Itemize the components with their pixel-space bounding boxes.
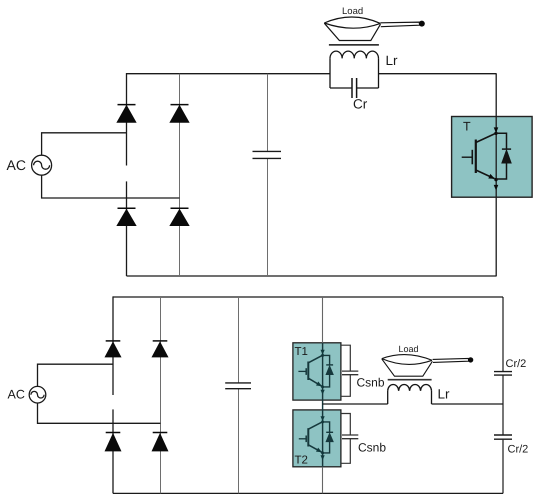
filter capacitor C2 plates (circuit 2) — [225, 383, 251, 389]
svg-text:Lr: Lr — [386, 53, 399, 68]
diode D6 (circuit 2 bridge, lower left) — [105, 433, 120, 451]
AC source V1 (circuit 1) — [32, 155, 52, 175]
anti-parallel diode of T1 — [323, 355, 334, 387]
anti-parallel diode of T2 — [323, 422, 334, 453]
node T2 collector junction — [321, 420, 324, 423]
wire half-bridge leg through T1 T2 (circuit 2) — [322, 297, 324, 493]
wire right leg middle segment (circuit 2) — [502, 376, 504, 435]
wire half-bridge midpoint to coil (circuit 2) — [323, 403, 388, 405]
svg-text:Load: Load — [342, 6, 363, 17]
node T collector junction — [494, 132, 497, 135]
inductor Lr coil (circuit 2) — [388, 384, 432, 404]
wire dark segment through T1 and T2 modules — [322, 343, 324, 467]
snubber capacitor Csnb2 branch — [341, 414, 358, 464]
IGBT module T2 box (circuit 2) — [293, 410, 341, 467]
IGBT T symbol — [462, 134, 496, 179]
anti-parallel diode of T1 triangle — [326, 366, 333, 374]
load pan (circuit 1) — [324, 17, 419, 41]
IGBT module T1 box (circuit 2) — [293, 343, 341, 400]
split resonant capacitor Cr/2 lower plates — [494, 435, 512, 439]
IGBT T2 symbol — [299, 422, 322, 452]
arrowhead below T2 emitter node — [321, 455, 325, 460]
wire right leg upper segment (circuit 2) — [502, 297, 504, 371]
arrowhead below T emitter node — [494, 185, 499, 191]
load pan handle knob (circuit 1) — [419, 21, 425, 27]
svg-text:Csnb: Csnb — [357, 376, 385, 390]
filter capacitor C2 upper lead (circuit 2) — [238, 297, 240, 383]
wire AC bottom lead (circuit 2) — [38, 403, 161, 424]
filter capacitor C1 lower lead (circuit 1) — [267, 159, 269, 276]
node T1 collector junction — [321, 354, 324, 357]
diode D2 (circuit 1 bridge, lower left) — [117, 208, 136, 225]
svg-text:AC: AC — [7, 157, 26, 173]
arrowhead into T1 collector node — [321, 350, 325, 355]
arrowhead into T2 collector node — [321, 416, 325, 421]
wire bridge leg A lower segment (circuit 1) — [126, 181, 128, 276]
inductor Lr coil (circuit 1) — [330, 51, 379, 88]
svg-text:T2: T2 — [295, 455, 308, 467]
split resonant capacitor Cr/2 upper plates — [494, 372, 512, 376]
IGBT T1 emitter arrowhead — [316, 382, 323, 389]
wire bottom rail (circuit 2) — [113, 492, 503, 494]
node T emitter junction — [494, 178, 497, 181]
wire bridge leg A upper segment (circuit 2) — [112, 296, 114, 395]
arrowhead into T collector node — [494, 127, 499, 133]
svg-text:Cr: Cr — [353, 97, 368, 112]
induction surface line (circuit 2) — [388, 379, 432, 381]
wire AC top lead (circuit 2) — [38, 364, 114, 386]
wire top rail left of tank (circuit 1) — [127, 73, 331, 75]
node T2 emitter junction — [321, 451, 324, 454]
arrowhead below T1 emitter node — [321, 390, 325, 395]
diode D3 (circuit 1 bridge, upper right) — [170, 105, 189, 123]
wire coil to split-capacitor midpoint (circuit 2) — [432, 403, 504, 405]
induction surface line (circuit 1) — [329, 44, 379, 46]
svg-text:Cr/2: Cr/2 — [508, 444, 529, 456]
wire bridge leg A upper segment (circuit 1) — [126, 73, 128, 166]
diode D8 (circuit 2 bridge, lower right) — [152, 433, 167, 451]
wire bridge leg A lower segment (circuit 2) — [112, 409, 114, 493]
svg-text:Load: Load — [399, 344, 419, 354]
svg-text:Lr: Lr — [438, 387, 451, 402]
IGBT T1 symbol — [298, 356, 322, 387]
wire bottom rail (circuit 1) — [127, 275, 497, 277]
diode D7 (circuit 2 bridge, upper right) — [152, 341, 167, 357]
svg-text:T: T — [463, 120, 471, 134]
svg-text:T1: T1 — [295, 346, 308, 358]
AC source V2 (circuit 2) — [29, 386, 46, 403]
diode D5 (circuit 2 bridge, upper left) — [105, 341, 120, 357]
filter capacitor C1 plates (circuit 1) — [253, 151, 282, 158]
svg-text:AC: AC — [8, 388, 25, 402]
node T1 emitter junction — [321, 385, 324, 388]
filter capacitor C1 upper lead (circuit 1) — [267, 74, 269, 151]
IGBT T emitter arrowhead — [488, 174, 496, 181]
wire right drop through T (circuit 1) — [495, 74, 497, 276]
wire AC bottom lead (circuit 1) — [42, 175, 180, 198]
wire top rail (circuit 2) — [113, 296, 503, 298]
snubber capacitor Csnb1 branch — [341, 345, 358, 396]
anti-parallel diode of T2 triangle — [326, 433, 333, 441]
load pan (circuit 2) — [382, 355, 469, 377]
filter capacitor C2 lower lead (circuit 2) — [238, 389, 240, 493]
capacitor Cr branch (circuit 1) — [330, 78, 379, 98]
wire AC top lead (circuit 1) — [42, 133, 127, 155]
anti-parallel diode of T triangle — [502, 150, 511, 163]
IGBT module T box (circuit 1) — [452, 117, 532, 198]
load pan handle knob (circuit 2) — [468, 357, 473, 362]
wire right leg lower segment (circuit 2) — [502, 440, 504, 494]
diode D4 (circuit 1 bridge, lower right) — [170, 208, 189, 225]
wire top rail right of tank (circuit 1) — [379, 73, 497, 75]
IGBT T2 emitter arrowhead — [316, 448, 323, 455]
wire bridge leg B (circuit 1) — [179, 74, 181, 276]
anti-parallel diode of T — [496, 133, 511, 179]
wire bridge leg B (circuit 2) — [160, 297, 162, 493]
svg-text:Cr/2: Cr/2 — [506, 358, 527, 370]
diode D1 (circuit 1 bridge, upper left) — [117, 105, 136, 123]
svg-text:Csnb: Csnb — [358, 441, 386, 455]
